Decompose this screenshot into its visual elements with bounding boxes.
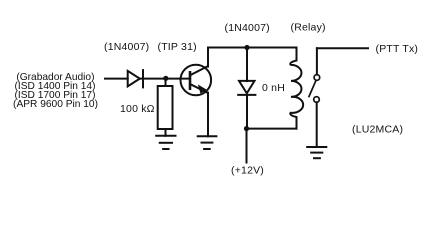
ground below switch xyxy=(307,147,326,158)
node B top junction dot xyxy=(244,45,249,50)
svg-text:(TIP 31): (TIP 31) xyxy=(158,41,197,53)
wire switch bottom to ground xyxy=(316,102,318,147)
wire top rail collector to relay coil xyxy=(208,47,297,49)
diode D2 (1N4007) flyback xyxy=(238,81,255,95)
svg-text:(+12V): (+12V) xyxy=(231,165,264,177)
node C bottom junction dot xyxy=(244,126,249,131)
wire Q1 emitter down to ground xyxy=(207,93,209,137)
svg-text:(Relay): (Relay) xyxy=(291,22,326,34)
wire D2 cathode down to node C xyxy=(246,95,248,129)
wire node B down to diode D2 xyxy=(246,48,248,82)
transistor Q1 (TIP 31) xyxy=(181,65,212,96)
resistor R1 body xyxy=(158,86,173,129)
svg-text:(1N4007): (1N4007) xyxy=(104,41,149,53)
node label (Grabador Audio) input text block xyxy=(13,72,98,110)
svg-text:(APR 9600 Pin 10): (APR 9600 Pin 10) xyxy=(13,99,98,110)
svg-text:0 nH: 0 nH xyxy=(262,82,285,94)
switch S1 relay contact xyxy=(309,75,320,103)
wire Q1 collector up to top rail xyxy=(207,48,209,67)
svg-text:(1N4007): (1N4007) xyxy=(225,22,270,34)
svg-text:100 kΩ: 100 kΩ xyxy=(120,103,155,115)
svg-text:(PTT Tx): (PTT Tx) xyxy=(376,43,419,55)
ground below Q1 emitter xyxy=(198,136,217,149)
wire switch common up to output rail xyxy=(316,48,318,74)
svg-text:(LU2MCA): (LU2MCA) xyxy=(352,124,403,136)
wire R1 to ground xyxy=(165,129,167,136)
wire node A down to resistor R1 xyxy=(165,79,167,86)
ground below R1 xyxy=(156,136,175,149)
diode D1 (1N4007) xyxy=(128,70,143,87)
wire node C down to +12V xyxy=(246,129,248,163)
wire node C to relay coil bottom xyxy=(247,128,297,130)
wire D1 cathode to node A and transistor base xyxy=(140,78,190,80)
wire input to diode D1 xyxy=(105,78,128,80)
node A junction dot xyxy=(163,76,168,81)
relay coil K1 xyxy=(290,48,303,129)
